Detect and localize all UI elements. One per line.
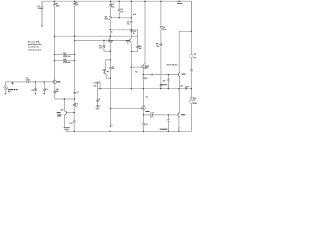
transistor Q3 (diff pair right): [130, 39, 132, 43]
svg-text:10k: 10k: [99, 47, 102, 49]
svg-text:Since V+ 9Wt: Since V+ 9Wt: [28, 40, 40, 43]
svg-text:1M: 1M: [31, 90, 34, 92]
wire x145 collector feed: [143, 1, 145, 65]
svg-text:Q7: Q7: [146, 97, 148, 99]
junction Q9 base-Q7: [143, 114, 144, 115]
input net flag: [12, 82, 13, 84]
svg-text:want filtered We: want filtered We: [28, 43, 41, 46]
wire Q8 collector: [63, 99, 65, 111]
transistor QA (x110 top stage): [109, 16, 112, 20]
ground arrow x42: [41, 25, 43, 27]
svg-text:10u: 10u: [150, 117, 153, 119]
resistor R4 (Q1 emitter): [54, 91, 56, 94]
wire input: [6, 82, 53, 86]
wire node A horizontal (Q1 collector bus): [55, 35, 138, 37]
capacitor C12 (Q7 emitter): [142, 124, 145, 126]
junction rail-x161: [160, 0, 162, 2]
label Q8 type: [57, 115, 61, 116]
svg-text:100n: 100n: [26, 80, 30, 82]
wire bias chain: [143, 74, 177, 76]
junction gnd bus-Q9: [178, 131, 179, 132]
wire bottom ground bus: [66, 104, 191, 132]
resistor R1 (x54.5 top): [54, 3, 56, 5]
junction x105 elbow: [110, 59, 111, 60]
svg-text:1k: 1k: [75, 106, 77, 108]
junction gnd bus-x168: [168, 131, 169, 132]
junction rail-Q5 feed: [144, 0, 146, 2]
capacitor C13 (y114.9 series): [151, 114, 152, 116]
wire x54 column: [54, 1, 56, 80]
svg-text:OUTPUT LEVEL Bias: OUTPUT LEVEL Bias: [166, 64, 177, 66]
junction R6 elbow: [110, 51, 111, 52]
component x74.2 upper (res): [73, 103, 75, 106]
svg-text:Q9: Q9: [180, 85, 182, 87]
resistor R2 (x74.6 top): [74, 3, 76, 5]
svg-text:1k: 1k: [111, 32, 113, 34]
transistor Q7 (lower driver, circle): [142, 106, 146, 110]
svg-text:Vbe: Vbe: [135, 72, 138, 74]
wire Q5 base: [131, 66, 141, 68]
wire Q3 emitter elbow: [131, 49, 137, 52]
diode bias (x168.5): [168, 78, 170, 80]
svg-text:47u: 47u: [120, 10, 123, 13]
wire Q4 emitter elbow: [106, 75, 110, 79]
junction Q1 emitter-x74: [74, 98, 75, 99]
junction rail-R3: [110, 0, 112, 2]
component D1 (x160.9 upper): [160, 27, 162, 29]
label Q1: [57, 81, 61, 82]
wire parallel R upper: [55, 53, 75, 55]
wire x97 feedback cap: [97, 82, 100, 89]
svg-text:1k: 1k: [133, 33, 135, 35]
wire QA base: [112, 17, 131, 19]
component x74.2 lower (cap): [73, 121, 76, 123]
supply flag bar: [177, 2, 183, 5]
svg-text:10u: 10u: [127, 24, 130, 26]
svg-text:J2: J2: [193, 100, 195, 102]
junction base bus-R6: [103, 40, 104, 41]
label bridge resistor: [164, 83, 167, 86]
svg-text:OUT: OUT: [185, 86, 190, 88]
source V1 (input circle): [4, 86, 8, 90]
junction QA base-C4: [119, 17, 120, 18]
wire Q5 emitter column: [142, 69, 144, 106]
junction x131-feedback: [131, 29, 132, 30]
svg-text:Q8: Q8: [61, 110, 63, 112]
svg-text:100u: 100u: [162, 29, 166, 31]
junction RP1 left: [54, 54, 55, 55]
wire Q6 collector: [179, 31, 191, 72]
svg-text:volume governance!: volume governance!: [28, 49, 42, 51]
junction Vcc right: [191, 31, 192, 32]
label lower bias: [160, 129, 168, 130]
resistor R5 (x35.4 shunt): [35, 88, 37, 92]
junction gnd bus-x110: [109, 131, 110, 132]
junction Q8 base net: [74, 112, 75, 113]
svg-text:C12: C12: [145, 124, 148, 126]
svg-text:10k: 10k: [156, 46, 159, 48]
svg-text:R8: R8: [64, 59, 66, 61]
label Q8 flag: [57, 112, 61, 113]
wire Q8 base: [67, 112, 74, 114]
label Q5: [145, 65, 149, 68]
junction QA base-x131: [131, 17, 132, 18]
svg-text:390k: 390k: [56, 5, 60, 7]
ground arrow source: [5, 93, 7, 94]
Q9 emitter marks: [178, 128, 180, 129]
transistor Q8 (sink): [64, 111, 67, 116]
wire Q6 emitter: [178, 76, 180, 113]
wire x191 column: [190, 1, 192, 100]
capacitor (x191): [190, 70, 193, 71]
junction gnd bus-C12: [143, 131, 144, 132]
svg-text:C11: C11: [69, 123, 72, 125]
wire x42 cap leads: [41, 1, 43, 25]
capacitor C2 (x44.3 shunt): [43, 88, 46, 92]
capacitor C5 (x131): [130, 21, 133, 23]
wire Q7 column: [143, 110, 145, 131]
svg-text:100n: 100n: [37, 8, 41, 10]
wire x119 cap leads: [118, 1, 120, 18]
junction rail-C5: [131, 0, 133, 2]
label Q6: [182, 74, 186, 75]
ground arrow x35.4: [35, 93, 37, 94]
junction gnd bus-x74: [74, 131, 75, 132]
svg-text:4k7: 4k7: [139, 47, 142, 50]
junction busA-Q2 collector: [110, 36, 111, 37]
wire x105.6 leg: [106, 60, 111, 70]
junction Q9 base-x168: [168, 114, 169, 115]
polarity arrow (x131 pot wiper): [131, 30, 133, 32]
svg-text:R7: R7: [64, 53, 66, 55]
label Q9: [181, 114, 185, 115]
svg-text:BC558: BC558: [105, 18, 108, 20]
junction rail-R2: [74, 0, 76, 2]
svg-text:Q4: Q4: [103, 68, 105, 71]
svg-text:as well as the: as well as the: [28, 46, 39, 49]
svg-text:470k 22k: 470k 22k: [63, 61, 71, 64]
wire Q9 base: [144, 114, 177, 116]
component (y74.6 series cap): [151, 74, 152, 76]
svg-text:IN: IN: [12, 83, 14, 85]
wire x160 column: [160, 1, 162, 89]
svg-text:100u: 100u: [96, 106, 100, 108]
svg-text:GND: GND: [193, 103, 198, 105]
junction bias-diode: [168, 74, 169, 75]
junction bias-Q5 emitter: [143, 74, 144, 75]
wire bias diode upper: [168, 75, 170, 89]
ground arrow x44.3: [44, 93, 46, 94]
transistor Q4 (phase): [103, 70, 106, 74]
wire x74 lower leg: [73, 99, 75, 131]
resistor R8 (x160.9): [160, 43, 162, 46]
junction out bus-Q6 emitter: [178, 88, 179, 89]
capacitor x97 lower: [96, 99, 99, 102]
svg-text:C3: C3: [94, 83, 96, 85]
junction RP2 left: [54, 60, 55, 61]
junction out bus-Q3 leg: [131, 88, 132, 89]
junction RP2 right: [74, 60, 75, 61]
capacitor x97 feedback: [96, 82, 98, 85]
label Q2: [110, 40, 113, 41]
wire x110 column mid: [109, 20, 111, 38]
wire parallel R lower: [55, 60, 75, 62]
junction out bus-Q7: [143, 88, 144, 89]
svg-text:D2: D2: [163, 81, 165, 83]
wire Q7 base: [110, 107, 141, 109]
junction input-C2: [44, 81, 45, 82]
capacitor C6 (x110 mid): [109, 67, 112, 69]
ground bar Q8: [64, 126, 70, 129]
svg-text:47u: 47u: [133, 13, 136, 16]
junction out bus-bridge R: [168, 88, 169, 89]
transistor Q5 (driver, circle): [142, 65, 146, 69]
svg-text:220k 10k: 220k 10k: [63, 56, 71, 58]
resistor RP2 (parallel lower): [63, 60, 67, 61]
wire base bus: [75, 39, 130, 41]
svg-text:C8: C8: [98, 99, 100, 101]
wire input shunt R leg: [34, 82, 36, 93]
svg-text:eG: eG: [111, 125, 114, 127]
ground bar x97: [96, 107, 100, 110]
transistor Q9 (output bottom): [177, 113, 180, 117]
label lamp: [194, 53, 196, 56]
svg-text:470: 470: [56, 90, 59, 93]
transistor Q6 (output top): [177, 72, 180, 76]
lamp (x191 upper circle): [190, 54, 193, 57]
capacitor C4 (x119): [118, 9, 121, 11]
wire top supply rail: [42, 1, 191, 31]
junction input-R5: [35, 81, 36, 82]
junction out bus-bridge L: [160, 88, 161, 89]
capacitor C8 (x42 top-left): [41, 7, 44, 8]
connector circle2 left dash: [188, 99, 191, 102]
junction RP1 right: [74, 54, 75, 55]
component (x191 y97-99): [190, 98, 192, 99]
connector (x191 lower circle): [190, 100, 193, 103]
svg-text:C7: C7: [77, 92, 79, 94]
junction busA-x74: [74, 36, 75, 37]
junction base bus-x74: [74, 40, 75, 41]
junction Q5 base net: [131, 66, 132, 67]
resistor R3 (x110.6 top): [110, 4, 112, 7]
svg-text:C13: C13: [150, 112, 153, 114]
capacitor C7 (x74.6 bypass): [73, 92, 76, 93]
wire Q8 emitter: [63, 116, 65, 128]
ground arrow x110 label: [110, 126, 112, 127]
wire x74 column: [74, 1, 76, 92]
junction Q3 emitter: [131, 51, 132, 52]
wire QA emitter feedback: [110, 30, 137, 46]
junction busA-Q1 collector: [54, 36, 55, 37]
wire x103.9 leg: [104, 40, 111, 51]
component lower bias (x168.4): [167, 119, 169, 122]
wire input shunt C leg: [43, 82, 45, 93]
flag on output bus: [186, 88, 187, 89]
junction Q4 emitter: [110, 78, 111, 79]
junction out bus-jack: [191, 88, 192, 89]
label source: [8, 89, 14, 90]
junction Q7 base net: [110, 108, 111, 109]
junction out bus-C3: [99, 88, 100, 89]
svg-text:47n: 47n: [45, 88, 48, 91]
junction rail-C4: [118, 0, 120, 2]
svg-text:47k: 47k: [75, 4, 78, 7]
wire x97 lower leg: [96, 89, 98, 108]
wire source ground: [5, 89, 7, 93]
svg-text:R11: R11: [145, 78, 148, 80]
resistor bridge (dark): [160, 84, 164, 85]
resistor R9 (x137.6 tail): [137, 45, 139, 48]
wire Q1 emitter: [55, 84, 75, 99]
wire Q3 emitter column: [130, 43, 132, 88]
component Q5 emitter (x143.4): [142, 78, 145, 80]
resistor R6 (x103.9): [103, 45, 105, 48]
svg-text:10u: 10u: [112, 68, 115, 70]
svg-text:10n: 10n: [94, 86, 97, 88]
junction rail-R1: [54, 0, 56, 2]
wire x110 column low: [109, 43, 111, 125]
junction QA emitter: [110, 29, 111, 30]
wire bridge resistor: [161, 85, 169, 89]
label Q3: [126, 40, 130, 41]
transistor Q2 (diff pair left): [109, 39, 111, 43]
transistor Q1 (input, circle style): [53, 80, 57, 84]
svg-text:2k2: 2k2: [111, 6, 114, 8]
wire output bus: [97, 88, 191, 90]
junction Q1 emitter-Q8: [64, 98, 65, 99]
capacitor C1 (input series): [27, 81, 28, 83]
wire lower bias leg: [167, 115, 169, 131]
wire Q9 emitter: [178, 117, 180, 132]
resistor RP1 (parallel upper): [63, 54, 67, 55]
wire x131 column: [130, 1, 132, 38]
wire x110 column top: [110, 1, 112, 16]
wire Q1 degeneration column: [74, 94, 76, 100]
